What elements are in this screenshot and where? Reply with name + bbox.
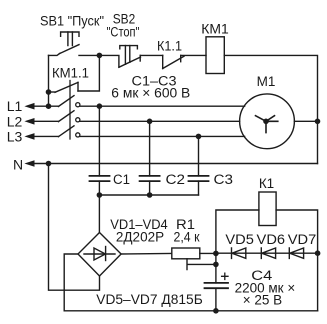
relay coil KM1 — [206, 37, 224, 74]
node dot zener input — [213, 251, 219, 257]
node dot C4 minus — [213, 308, 219, 314]
diode bridge VD1-VD4 — [78, 233, 121, 277]
svg-text:× 25 В: × 25 В — [243, 293, 282, 308]
svg-text:2,4 к: 2,4 к — [174, 230, 200, 245]
wire K1 left — [216, 210, 259, 253]
svg-text:L2: L2 — [7, 113, 23, 129]
node dot rail C1 — [97, 192, 103, 198]
capacitor C2 — [140, 121, 160, 195]
svg-text:КМ1.1: КМ1.1 — [52, 66, 89, 81]
wire zener chain — [216, 252, 318, 254]
svg-text:VD5–VD7 Д815Б: VD5–VD7 Д815Б — [96, 292, 203, 307]
arrow L2 — [24, 118, 34, 125]
arrow L3 — [24, 133, 34, 140]
wire L3 — [34, 135, 59, 137]
svg-text:L3: L3 — [7, 128, 23, 144]
node dot L1 capacitor tap — [97, 103, 103, 109]
svg-text:C3: C3 — [214, 172, 234, 187]
node dot N tap — [46, 161, 52, 167]
svg-text:К1.1: К1.1 — [157, 39, 182, 54]
node dot L2 capacitor tap — [147, 119, 153, 125]
contact KM1.1 pole 3 — [58, 126, 74, 137]
zener diode VD5 — [232, 248, 246, 258]
wire R1 to node — [200, 252, 216, 254]
wire N to bridge ac2 — [49, 164, 100, 291]
capacitor C1 — [90, 106, 110, 195]
node dot motor right — [315, 119, 321, 125]
wire bottom rail — [64, 310, 317, 312]
svg-text:2Д202Р: 2Д202Р — [116, 230, 164, 245]
svg-text:М1: М1 — [257, 74, 276, 89]
contact KM1.1 pole 2 — [58, 111, 74, 122]
contact KM1.1 pole 1 — [58, 96, 74, 107]
arrow N — [24, 160, 34, 167]
node dot rail C2 — [147, 192, 153, 198]
node dot zener output — [315, 250, 321, 256]
wire motor to right rail — [294, 120, 317, 122]
wire rail to bridge — [98, 195, 100, 233]
svg-text:6 мк × 600 В: 6 мк × 600 В — [111, 85, 190, 100]
relay coil K1 — [259, 192, 276, 226]
node dot L1 tap — [46, 103, 52, 109]
node dot L3 capacitor tap — [196, 134, 202, 140]
capacitor C4 polarity plus — [222, 273, 228, 279]
contact K1.1 — [163, 55, 206, 68]
svg-text:"Стоп": "Стоп" — [107, 25, 140, 40]
wire artificial neutral rail — [99, 194, 198, 196]
zener diode VD6 — [261, 248, 275, 258]
svg-text:VD5: VD5 — [225, 232, 254, 247]
wire left control vertical — [48, 55, 50, 106]
wire N — [34, 163, 318, 165]
wire L2 — [34, 120, 59, 122]
svg-text:К1: К1 — [259, 176, 274, 191]
node dot control junction — [97, 53, 103, 59]
wire bridge minus to bottom rail — [64, 254, 78, 311]
svg-text:C1: C1 — [113, 172, 130, 187]
push button SB2 — [99, 46, 162, 68]
wire coil to right rail — [224, 55, 317, 163]
svg-text:L1: L1 — [7, 98, 23, 114]
wire L3 to motor — [80, 135, 245, 137]
wire bridge plus to R1 — [121, 252, 172, 255]
node dot aux tap — [46, 89, 52, 95]
wire node vertical — [215, 253, 217, 283]
mechanical linkage — [69, 81, 71, 140]
capacitor C3 — [189, 136, 209, 195]
svg-text:VD6: VD6 — [257, 232, 286, 247]
svg-text:C2: C2 — [166, 172, 186, 187]
svg-text:SB1 "Пуск": SB1 "Пуск" — [40, 14, 104, 29]
svg-text:VD7: VD7 — [288, 232, 317, 247]
node dot C4 plus — [213, 262, 219, 268]
arrow L1 — [24, 103, 34, 110]
capacitor C4 — [205, 283, 229, 311]
motor M1 — [240, 94, 295, 149]
wire L1 — [34, 105, 59, 107]
wire L2 to motor — [80, 120, 240, 122]
zener diode VD7 — [289, 248, 303, 258]
push button SB1 — [49, 32, 100, 55]
wire L1 to motor — [80, 105, 245, 107]
contact KM1.1 aux self-hold — [49, 55, 100, 92]
resistor R1 — [172, 248, 200, 259]
resistor R1 tap — [187, 259, 216, 270]
svg-text:N: N — [13, 157, 23, 173]
svg-text:КМ1: КМ1 — [201, 22, 229, 37]
wire K1 right — [276, 210, 318, 311]
